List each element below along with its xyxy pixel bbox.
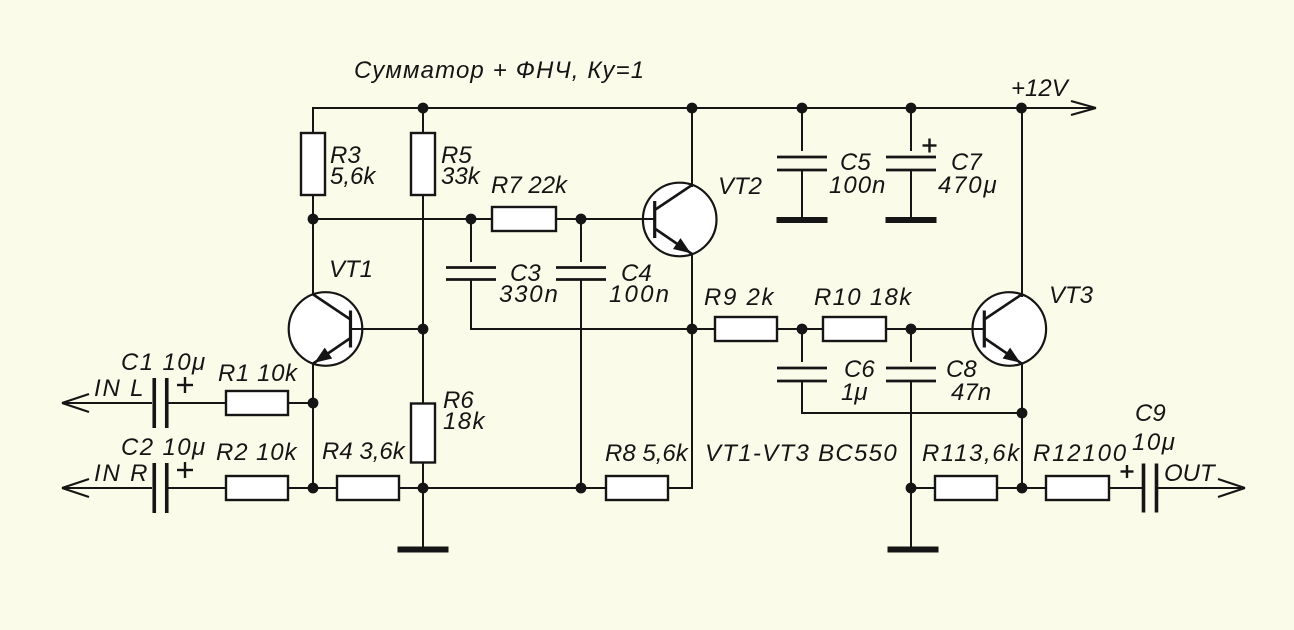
wire R4 right (399, 487, 423, 489)
wire C8 top (910, 329, 912, 362)
node junction (1021.5,108) (1016, 103, 1027, 114)
svg-text:C9: C9 (1135, 400, 1166, 427)
node junction (471,219) (466, 214, 477, 225)
svg-text:OUT: OUT (1164, 460, 1217, 487)
node junction (692,329) (687, 324, 698, 335)
wire R5 top (422, 108, 424, 164)
ground C5 (777, 170, 828, 221)
wire C4 top (580, 219, 582, 262)
node junction (911,488) (906, 483, 917, 494)
wire C8 bottom (910, 381, 912, 489)
capacitor C1 (154, 378, 167, 428)
wire C6 bottom to VT3 emitter (802, 381, 1022, 414)
wire R8 to VT2 emitter node (668, 329, 692, 488)
svg-text:33k: 33k (441, 163, 482, 190)
wire C8 node to R11 (911, 487, 935, 489)
node junction (802,329) (797, 324, 808, 335)
wire R12 to C9 (1109, 487, 1144, 489)
capacitor C6 (777, 368, 827, 381)
wire R7 to VT2 base (556, 218, 655, 220)
svg-text:Сумматор + ФНЧ, Ку=1: Сумматор + ФНЧ, Ку=1 (354, 57, 645, 84)
capacitor C5 (777, 157, 827, 170)
ground C7 (886, 170, 937, 221)
svg-text:C1 10μ: C1 10μ (121, 349, 207, 376)
wire VT1 emitter (312, 364, 314, 489)
node junction (313,403) (308, 398, 319, 409)
node junction (313,219) (308, 214, 319, 225)
wire C5 top (801, 108, 803, 151)
transistor VT2 (643, 183, 717, 257)
resistor R8 (606, 476, 668, 500)
svg-text:R10 18k: R10 18k (814, 284, 913, 311)
capacitor C4 (556, 268, 606, 280)
svg-text:R12100: R12100 (1033, 440, 1128, 467)
resistor R7 (492, 207, 556, 231)
resistor R6 (411, 404, 435, 463)
resistor R3 (301, 133, 325, 195)
node junction (692,108) (687, 103, 698, 114)
wire R5 to R6 (422, 195, 424, 433)
output OUT arrow (1157, 479, 1246, 497)
resistor R4 (337, 476, 399, 500)
svg-text:VT3: VT3 (1049, 282, 1094, 309)
wire R2 to node (288, 487, 313, 489)
wire R3 top (312, 107, 314, 164)
svg-text:100n: 100n (609, 281, 671, 308)
capacitor C2 (154, 463, 167, 513)
svg-text:R9 2k: R9 2k (704, 284, 775, 311)
svg-text:100n: 100n (829, 172, 886, 199)
wire VT2 emitter to R9 (692, 328, 715, 330)
wire mid left (313, 218, 492, 220)
plus C2 (177, 462, 193, 478)
power +12V arrow (1071, 101, 1096, 115)
wire R6 bottom (422, 463, 424, 489)
wire C1 to R1 (167, 402, 226, 404)
wire VT3e to R12 (1022, 487, 1046, 489)
wire VT1 base (351, 328, 424, 330)
wire R3 bottom (312, 195, 314, 219)
node junction (802,108) (797, 103, 808, 114)
svg-text:R113,6k: R113,6k (922, 440, 1021, 467)
svg-text:VT1: VT1 (329, 256, 373, 283)
resistor R2 (226, 476, 288, 500)
svg-text:R8 5,6k: R8 5,6k (605, 440, 690, 467)
svg-text:5,6k: 5,6k (330, 163, 377, 190)
capacitor C9 (1144, 464, 1157, 513)
node junction (911,329) (906, 324, 917, 335)
node junction (1022,488) (1017, 483, 1028, 494)
wire C3 top (470, 219, 472, 262)
wire R4 left (313, 487, 337, 489)
svg-text:18k: 18k (443, 408, 486, 435)
node junction (581,488) (576, 483, 587, 494)
capacitor C7 (886, 157, 936, 170)
svg-text:VT1-VT3 BC550: VT1-VT3 BC550 (705, 440, 898, 467)
transistor VT3 (973, 292, 1047, 366)
wire VT3 collector (1021, 108, 1023, 297)
svg-text:+12V: +12V (1011, 75, 1070, 102)
node junction (423,329) (418, 324, 429, 335)
node junction (581,219) (576, 214, 587, 225)
node junction (1022,413) (1017, 408, 1028, 419)
svg-text:47n: 47n (951, 379, 991, 406)
wire VT2 emitter (691, 253, 693, 329)
wire C4 bottom (580, 280, 582, 489)
node junction (911,108) (906, 103, 917, 114)
ground main (398, 488, 449, 550)
wire C7 top (910, 108, 912, 151)
plus C9 (1121, 465, 1134, 478)
svg-text:R2 10k: R2 10k (216, 439, 299, 466)
svg-text:330n: 330n (499, 281, 560, 308)
svg-text:R7 22k: R7 22k (491, 172, 569, 199)
wire ground node to C4 node (423, 487, 606, 489)
wire VT3 emitter (1021, 364, 1023, 489)
resistor R11 (935, 476, 997, 500)
plus C7 (923, 139, 937, 153)
node junction (423,108) (418, 103, 429, 114)
svg-text:IN L: IN L (94, 375, 145, 402)
ground C8 (888, 488, 939, 550)
wire C2 to R2 (167, 487, 226, 489)
transistor VT1 (289, 292, 363, 366)
input IN L arrow (62, 394, 152, 412)
wire +12V rail (313, 107, 1096, 109)
resistor R5 (411, 133, 435, 195)
svg-text:C2 10μ: C2 10μ (121, 434, 207, 461)
node junction (423,488) (418, 483, 429, 494)
resistor R12 (1046, 476, 1109, 500)
node junction (313,488) (308, 483, 319, 494)
capacitor C8 (886, 368, 936, 381)
resistor R1 (226, 391, 288, 415)
svg-text:R4 3,6k: R4 3,6k (322, 438, 407, 465)
capacitor C3 (446, 268, 496, 280)
wire R1 to emitter (288, 402, 313, 404)
wire R11 to VT3 emitter (997, 487, 1022, 489)
svg-text:1μ: 1μ (841, 379, 868, 406)
wire C6 top (801, 329, 803, 362)
wire VT1 collector (312, 219, 314, 294)
plus C1 (177, 377, 193, 393)
svg-text:10μ: 10μ (1132, 429, 1176, 456)
wire R10 to VT3 base (886, 328, 984, 330)
svg-text:IN R: IN R (94, 460, 149, 487)
svg-text:VT2: VT2 (718, 173, 762, 200)
wire VT2 collector (691, 108, 693, 187)
wire R9 to C6 node (777, 328, 823, 330)
input IN R arrow (62, 479, 152, 497)
resistor R9 (715, 317, 777, 341)
svg-text:470μ: 470μ (938, 172, 998, 199)
svg-text:R1 10k: R1 10k (218, 360, 299, 387)
wire C3 bottom to VT2 emitter node (471, 280, 692, 330)
resistor R10 (823, 317, 886, 341)
